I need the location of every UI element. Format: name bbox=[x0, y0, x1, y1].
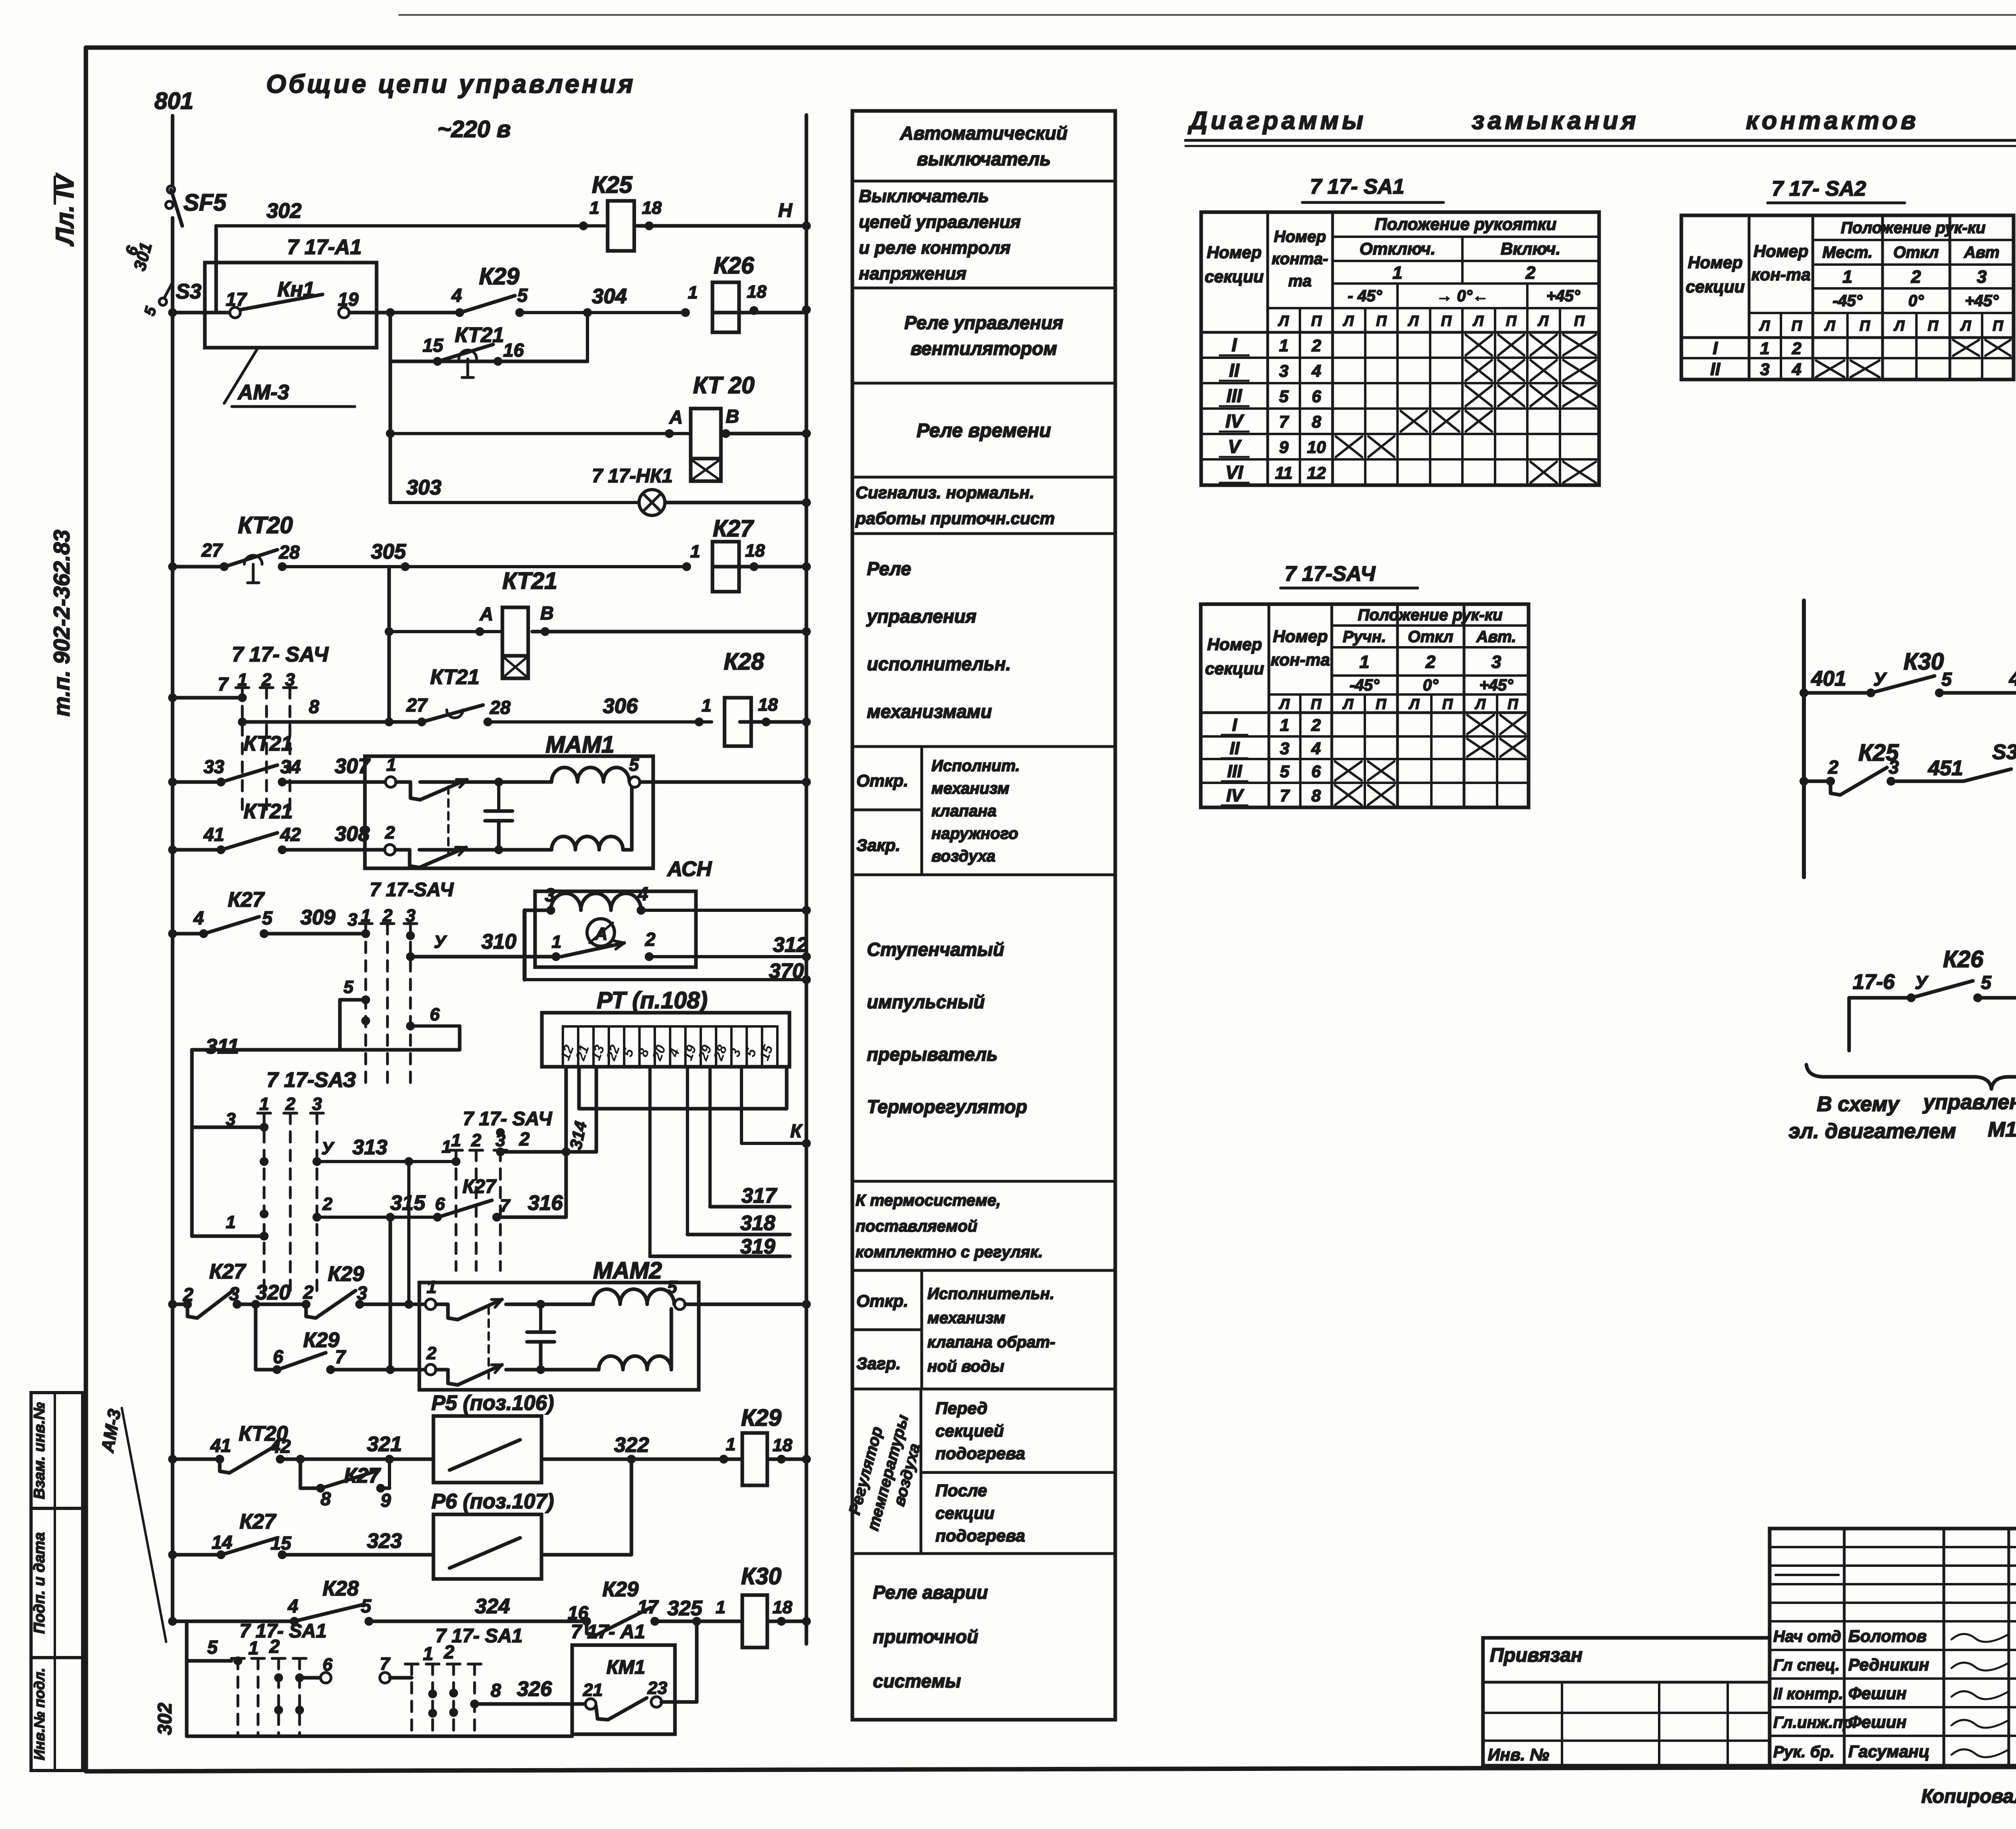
svg-text:4: 4 bbox=[451, 285, 462, 306]
svg-text:К28: К28 bbox=[724, 649, 764, 675]
svg-text:Л: Л bbox=[1824, 317, 1836, 334]
svg-text:3: 3 bbox=[226, 1109, 235, 1129]
svg-text:5: 5 bbox=[262, 907, 273, 928]
svg-text:1: 1 bbox=[1360, 652, 1369, 672]
svg-text:2: 2 bbox=[471, 1130, 481, 1150]
svg-text:вентилятором: вентилятором bbox=[910, 338, 1057, 359]
wire 308 bbox=[282, 848, 385, 852]
svg-text:12: 12 bbox=[1307, 463, 1326, 482]
svg-text:1: 1 bbox=[1279, 336, 1288, 355]
svg-text:К26: К26 bbox=[714, 252, 754, 279]
svg-text:II: II bbox=[1230, 738, 1240, 758]
svg-text:326: 326 bbox=[517, 1677, 552, 1701]
svg-text:3: 3 bbox=[1977, 267, 1987, 287]
svg-text:та: та bbox=[1288, 272, 1312, 290]
top paper edge line bbox=[399, 14, 2016, 16]
svg-text:Реле аварии: Реле аварии bbox=[873, 1582, 988, 1603]
svg-text:321: 321 bbox=[367, 1433, 402, 1456]
svg-text:17: 17 bbox=[226, 289, 248, 310]
svg-text:2: 2 bbox=[1425, 652, 1436, 672]
svg-text:П: П bbox=[1442, 696, 1453, 712]
svg-text:1: 1 bbox=[702, 696, 711, 715]
svg-text:3: 3 bbox=[1279, 361, 1288, 380]
svg-text:клапана обрат-: клапана обрат- bbox=[927, 1333, 1055, 1351]
wire 325 bbox=[655, 1620, 742, 1623]
wire 17-6 K26 17-4 bbox=[1849, 996, 1911, 1000]
svg-text:К30: К30 bbox=[741, 1563, 781, 1589]
svg-text:В схему: В схему bbox=[1817, 1093, 1900, 1116]
svg-text:6: 6 bbox=[1311, 762, 1321, 781]
wire P6 riser bbox=[541, 1553, 631, 1557]
wire pin7 bbox=[168, 693, 177, 702]
time contact KT20 27-28 bbox=[168, 562, 177, 571]
svg-text:Л: Л bbox=[1893, 317, 1905, 334]
svg-text:Авт: Авт bbox=[1964, 244, 1999, 261]
relay coil K25 bbox=[608, 201, 634, 251]
svg-text:ной воды: ной воды bbox=[927, 1358, 1004, 1375]
wire KT21 bypass bbox=[389, 313, 392, 361]
svg-text:305: 305 bbox=[371, 540, 406, 563]
wire 322 bbox=[541, 1458, 742, 1461]
svg-text:I: I bbox=[1232, 715, 1237, 735]
svg-text:напряжения: напряжения bbox=[859, 264, 966, 284]
svg-text:КМ1: КМ1 bbox=[606, 1657, 645, 1678]
svg-text:Н: Н bbox=[778, 200, 793, 221]
svg-text:15: 15 bbox=[423, 335, 444, 356]
MAM1 internal switches bbox=[396, 782, 420, 800]
svg-text:801: 801 bbox=[154, 88, 194, 114]
svg-text:АСН: АСН bbox=[666, 857, 712, 881]
svg-text:механизм: механизм bbox=[927, 1309, 1005, 1327]
brace to M17 circuit bbox=[1806, 1065, 2016, 1089]
svg-text:41: 41 bbox=[210, 1435, 231, 1456]
svg-text:выключатель: выключатель bbox=[917, 148, 1051, 169]
svg-text:4: 4 bbox=[1311, 739, 1320, 758]
svg-text:+45°: +45° bbox=[1479, 676, 1514, 694]
svg-text:Привязан: Привязан bbox=[1490, 1645, 1583, 1666]
svg-text:I: I bbox=[1713, 338, 1718, 358]
svg-text:Положение рук-ки: Положение рук-ки bbox=[1841, 219, 1985, 237]
svg-text:Выключатель: Выключатель bbox=[859, 186, 989, 206]
svg-text:7: 7 bbox=[1279, 412, 1289, 431]
svg-text:15: 15 bbox=[271, 1533, 292, 1554]
relay coil K30 bbox=[742, 1595, 767, 1648]
contact K29 2-3 break bbox=[302, 1300, 310, 1309]
svg-text:322: 322 bbox=[614, 1433, 649, 1457]
side stamp box Взам.инв.№ bbox=[31, 1393, 83, 1508]
svg-text:1: 1 bbox=[361, 906, 371, 926]
svg-text:5: 5 bbox=[1279, 387, 1289, 406]
svg-text:3: 3 bbox=[229, 1283, 240, 1304]
actuator box MAM1 bbox=[365, 756, 653, 868]
svg-text:3: 3 bbox=[406, 906, 415, 926]
svg-text:41: 41 bbox=[203, 824, 224, 845]
relay coil K28 bbox=[725, 698, 751, 746]
svg-text:1: 1 bbox=[451, 1130, 461, 1150]
svg-text:302: 302 bbox=[154, 1703, 176, 1735]
svg-text:К27: К27 bbox=[713, 515, 754, 542]
svg-text:В: В bbox=[726, 406, 739, 427]
svg-text:II: II bbox=[1229, 360, 1240, 381]
svg-text:7: 7 bbox=[1280, 786, 1290, 805]
svg-text:3: 3 bbox=[312, 1094, 322, 1114]
svg-text:М17: М17 bbox=[1988, 1118, 2016, 1141]
svg-text:5: 5 bbox=[629, 755, 639, 775]
tap 6-7 connector bbox=[300, 1676, 321, 1680]
svg-text:наружного: наружного bbox=[931, 825, 1018, 843]
svg-text:Закр.: Закр. bbox=[856, 836, 900, 855]
svg-text:Отключ.: Отключ. bbox=[1360, 239, 1435, 258]
svg-text:Номер: Номер bbox=[1688, 253, 1743, 272]
svg-text:451: 451 bbox=[1928, 757, 1963, 780]
svg-text:К термосистеме,: К термосистеме, bbox=[856, 1192, 1001, 1210]
svg-text:I: I bbox=[1232, 334, 1237, 355]
svg-text:механизм: механизм bbox=[931, 780, 1009, 797]
svg-text:приточной: приточной bbox=[873, 1626, 978, 1647]
svg-text:1: 1 bbox=[589, 198, 599, 218]
svg-text:Фешин: Фешин bbox=[1848, 1712, 1907, 1731]
PT wire 319 bbox=[648, 1067, 652, 1256]
contact K27 14-15 bbox=[168, 1550, 177, 1559]
svg-text:комплектно с регуляк.: комплектно с регуляк. bbox=[856, 1243, 1043, 1261]
wire 323 bbox=[282, 1553, 433, 1557]
riser from 313 to MAM2 bbox=[407, 1162, 410, 1304]
svg-text:7 17-SАЧ: 7 17-SАЧ bbox=[1285, 562, 1376, 586]
right bus N bbox=[805, 115, 808, 1644]
svg-text:7 17- SА1: 7 17- SА1 bbox=[1310, 175, 1404, 198]
svg-text:Автоматический: Автоматический bbox=[900, 123, 1067, 144]
MAM1 capacitor bbox=[497, 782, 500, 811]
svg-text:секции: секции bbox=[1205, 659, 1264, 678]
MAM2 capacitor bbox=[539, 1304, 542, 1332]
svg-text:Ступенчатый: Ступенчатый bbox=[867, 939, 1004, 960]
svg-text:Номер: Номер bbox=[1207, 243, 1262, 262]
svg-text:Ручн.: Ручн. bbox=[1343, 628, 1386, 646]
svg-text:1: 1 bbox=[1760, 339, 1769, 358]
svg-text:14: 14 bbox=[212, 1532, 232, 1553]
svg-text:1: 1 bbox=[442, 1137, 451, 1157]
MAM1 windings bbox=[552, 767, 629, 782]
svg-text:Откр.: Откр. bbox=[856, 1291, 908, 1310]
title block approval table bbox=[1770, 1529, 2016, 1766]
wire 315 316 bbox=[317, 1216, 437, 1219]
svg-text:КТ21: КТ21 bbox=[455, 323, 504, 347]
svg-text:Сигнализ. нормальн.: Сигнализ. нормальн. bbox=[856, 483, 1034, 502]
svg-text:П: П bbox=[1311, 313, 1322, 329]
svg-text:5: 5 bbox=[1280, 762, 1289, 781]
MAM2 windings bbox=[593, 1289, 674, 1304]
svg-text:4: 4 bbox=[193, 907, 204, 928]
svg-text:К30: К30 bbox=[1904, 649, 1944, 675]
wire 303 bbox=[390, 501, 639, 504]
bound stamp Привязан bbox=[1483, 1638, 1770, 1766]
svg-text:3: 3 bbox=[496, 1130, 505, 1150]
svg-text:311: 311 bbox=[206, 1035, 239, 1058]
svg-text:23: 23 bbox=[647, 1678, 667, 1698]
svg-text:1: 1 bbox=[1280, 715, 1289, 734]
tap 3 bbox=[192, 1126, 264, 1129]
svg-text:1: 1 bbox=[226, 1212, 235, 1232]
svg-text:6: 6 bbox=[1312, 387, 1321, 406]
svg-text:секцией: секцией bbox=[935, 1421, 1004, 1440]
svg-text:Л: Л bbox=[1472, 313, 1484, 329]
svg-text:К26: К26 bbox=[1943, 946, 1984, 972]
svg-text:312: 312 bbox=[773, 933, 808, 957]
svg-text:4: 4 bbox=[1791, 360, 1801, 379]
ACH top winding 3-4 bbox=[525, 909, 551, 912]
svg-text:П: П bbox=[1376, 696, 1387, 712]
svg-text:28: 28 bbox=[489, 697, 511, 718]
svg-text:К27: К27 bbox=[228, 888, 265, 911]
wire 326 bbox=[475, 1702, 585, 1706]
svg-text:цепей управления: цепей управления bbox=[859, 212, 1021, 232]
side stamp box Инв.№ подл. bbox=[31, 1658, 83, 1771]
svg-text:6: 6 bbox=[435, 1194, 445, 1214]
svg-text:2: 2 bbox=[303, 1282, 314, 1303]
svg-text:работы приточн.сист: работы приточн.сист bbox=[855, 509, 1055, 528]
svg-text:~220 в: ~220 в bbox=[437, 116, 511, 142]
svg-text:42: 42 bbox=[280, 824, 301, 845]
svg-text:МАМ1: МАМ1 bbox=[546, 732, 614, 758]
svg-text:П: П bbox=[1791, 317, 1802, 334]
wire 311 bbox=[192, 1048, 460, 1052]
wire left feed 801 bbox=[171, 116, 175, 186]
svg-text:У: У bbox=[434, 932, 447, 952]
svg-text:320: 320 bbox=[256, 1281, 291, 1304]
MAM2 internal switches bbox=[436, 1304, 458, 1320]
svg-text:11: 11 bbox=[1275, 463, 1293, 482]
svg-text:7 17- SАЧ: 7 17- SАЧ bbox=[232, 643, 329, 666]
svg-text:П: П bbox=[1311, 696, 1322, 712]
svg-text:РТ (п.108): РТ (п.108) bbox=[597, 987, 708, 1014]
svg-text:2: 2 bbox=[1311, 715, 1320, 734]
svg-text:К29: К29 bbox=[303, 1328, 339, 1352]
svg-text:управления: управления bbox=[866, 606, 977, 627]
svg-text:Реле управления: Реле управления bbox=[904, 312, 1063, 333]
svg-text:17-6: 17-6 bbox=[1853, 970, 1895, 994]
svg-text:324: 324 bbox=[475, 1595, 510, 1618]
svg-text:1: 1 bbox=[690, 542, 700, 561]
svg-text:К29: К29 bbox=[479, 263, 519, 290]
svg-text:7 17-А1: 7 17-А1 bbox=[287, 236, 362, 259]
svg-text:-45°: -45° bbox=[1833, 292, 1863, 310]
callout АМ-3 bbox=[224, 348, 258, 403]
svg-text:Гасуманц: Гасуманц bbox=[1848, 1742, 1930, 1761]
svg-text:VI: VI bbox=[1225, 462, 1243, 483]
svg-text:кон-та: кон-та bbox=[1752, 265, 1811, 284]
svg-text:446: 446 bbox=[2009, 667, 2016, 690]
svg-text:9: 9 bbox=[1279, 438, 1289, 457]
svg-text:Л: Л bbox=[1279, 696, 1290, 712]
svg-text:К27: К27 bbox=[240, 1510, 277, 1533]
svg-text:2: 2 bbox=[385, 823, 395, 843]
svg-text:308: 308 bbox=[335, 822, 370, 846]
svg-text:17: 17 bbox=[637, 1596, 659, 1617]
svg-text:42: 42 bbox=[270, 1436, 291, 1457]
callout line АМ-3 bottom bbox=[122, 1408, 166, 1642]
wire 309 bbox=[264, 932, 366, 936]
wire 306 bbox=[488, 720, 712, 724]
svg-text:5: 5 bbox=[1941, 669, 1952, 690]
svg-text:клапана: клапана bbox=[931, 802, 996, 820]
svg-text:Л: Л bbox=[1759, 317, 1770, 334]
svg-text:П: П bbox=[1574, 313, 1585, 329]
svg-text:Инв.№ подл.: Инв.№ подл. bbox=[31, 1668, 48, 1760]
svg-text:1: 1 bbox=[688, 283, 698, 302]
svg-text:К29: К29 bbox=[741, 1405, 781, 1431]
svg-text:У: У bbox=[321, 1139, 335, 1158]
svg-text:317: 317 bbox=[741, 1184, 777, 1208]
svg-text:310: 310 bbox=[481, 930, 516, 953]
svg-text:т.п. 902-2-362.83: т.п. 902-2-362.83 bbox=[49, 530, 74, 716]
PT loop wire below bbox=[579, 1067, 787, 1109]
svg-text:18: 18 bbox=[773, 1435, 792, 1455]
svg-text:Номер: Номер bbox=[1754, 242, 1808, 261]
wire 2 K25 3 451 S3 452 bbox=[1799, 777, 1808, 786]
PT wire 317 bbox=[708, 1067, 712, 1207]
svg-text:Л: Л bbox=[1408, 313, 1419, 329]
svg-text:323: 323 bbox=[367, 1529, 402, 1553]
svg-text:9: 9 bbox=[381, 1490, 391, 1511]
svg-text:А: А bbox=[479, 603, 493, 624]
svg-text:19: 19 bbox=[338, 289, 359, 310]
contact KM1 21-23 bbox=[585, 1699, 596, 1709]
svg-text:16: 16 bbox=[568, 1602, 589, 1623]
svg-text:→ 0°←: → 0°← bbox=[1436, 287, 1488, 305]
svg-text:К: К bbox=[790, 1120, 803, 1141]
svg-text:прерыватель: прерыватель bbox=[867, 1044, 998, 1065]
svg-text:кон-та: кон-та bbox=[1271, 650, 1330, 669]
svg-text:27: 27 bbox=[201, 540, 223, 561]
svg-text:10: 10 bbox=[1307, 438, 1326, 457]
actuator box MAM2 bbox=[419, 1283, 699, 1390]
svg-text:Гл.инж.пр: Гл.инж.пр bbox=[1773, 1714, 1853, 1731]
svg-text:Л: Л bbox=[1342, 696, 1354, 712]
svg-text:Откл: Откл bbox=[1408, 628, 1454, 646]
svg-text:Откр.: Откр. bbox=[856, 771, 908, 790]
time relay coil KT21 bbox=[389, 630, 502, 633]
svg-text:1: 1 bbox=[1393, 263, 1402, 283]
svg-text:А: А bbox=[669, 407, 683, 428]
svg-text:5: 5 bbox=[1981, 972, 1992, 993]
pushbutton Кн1 bbox=[168, 308, 177, 317]
svg-text:27: 27 bbox=[406, 694, 428, 715]
svg-text:Реле времени: Реле времени bbox=[916, 420, 1051, 441]
svg-text:6: 6 bbox=[430, 1005, 440, 1024]
svg-text:КТ21: КТ21 bbox=[244, 732, 293, 755]
svg-text:Номер: Номер bbox=[1273, 627, 1328, 646]
svg-text:304: 304 bbox=[592, 285, 627, 308]
svg-text:8: 8 bbox=[1311, 786, 1321, 805]
svg-text:Загр.: Загр. bbox=[856, 1354, 901, 1373]
svg-text:2: 2 bbox=[444, 1641, 454, 1662]
svg-text:П: П bbox=[1860, 317, 1870, 334]
svg-text:Р6 (поз.107): Р6 (поз.107) bbox=[431, 1490, 554, 1513]
tap 1 bbox=[192, 1235, 264, 1238]
svg-text:АМ-3: АМ-3 bbox=[237, 381, 289, 404]
wire 320 bbox=[237, 1303, 306, 1306]
svg-text:7: 7 bbox=[335, 1346, 346, 1367]
svg-text:S3: S3 bbox=[176, 280, 202, 303]
svg-text:Редникин: Редникин bbox=[1848, 1655, 1929, 1674]
svg-text:КТ 20: КТ 20 bbox=[693, 372, 754, 398]
contact K29 4-5 bbox=[455, 308, 464, 317]
svg-text:1: 1 bbox=[259, 1094, 269, 1114]
svg-text:Л: Л bbox=[1343, 313, 1354, 329]
svg-text:318: 318 bbox=[740, 1212, 775, 1235]
riser from 315 to MAM2 lower bbox=[389, 1217, 392, 1370]
svg-text:К25: К25 bbox=[592, 172, 633, 198]
svg-text:и реле контроля: и реле контроля bbox=[859, 238, 1010, 258]
svg-text:7 17-НК1: 7 17-НК1 bbox=[592, 465, 673, 487]
svg-text:3: 3 bbox=[357, 1283, 367, 1303]
relay coil K27 bbox=[712, 542, 739, 592]
box 7 17-А1 bbox=[205, 263, 377, 348]
svg-text:5: 5 bbox=[517, 285, 528, 306]
signal bus vertical bbox=[1802, 601, 1806, 877]
tap 5 bbox=[340, 998, 366, 1002]
wire MAM2 to bus bbox=[685, 1303, 806, 1306]
riser to K30 rung bbox=[695, 1621, 699, 1702]
cell Регулятор температуры воздуха bbox=[920, 1389, 923, 1554]
svg-text:МАМ2: МАМ2 bbox=[593, 1258, 662, 1284]
svg-text:2: 2 bbox=[1911, 267, 1921, 287]
svg-text:2: 2 bbox=[322, 1194, 333, 1214]
svg-text:контактов: контактов bbox=[1746, 107, 1919, 135]
svg-text:21: 21 bbox=[583, 1680, 603, 1700]
svg-text:Болотов: Болотов bbox=[1848, 1627, 1926, 1645]
svg-text:Кн1: Кн1 bbox=[277, 278, 314, 301]
svg-text:Рук. бр.: Рук. бр. bbox=[1773, 1743, 1835, 1761]
PT wire to tap2 bbox=[595, 1067, 598, 1152]
svg-text:Откл: Откл bbox=[1893, 244, 1939, 261]
contact K27 8-9 bypass bbox=[299, 1459, 302, 1488]
svg-text:Фешин: Фешин bbox=[1848, 1684, 1907, 1703]
contact K27 4-5 bbox=[168, 929, 177, 938]
svg-text:5: 5 bbox=[344, 977, 354, 997]
legend column table bbox=[852, 111, 1115, 1720]
svg-text:2: 2 bbox=[1311, 336, 1321, 355]
svg-text:КТ21: КТ21 bbox=[502, 568, 557, 594]
svg-text:системы: системы bbox=[873, 1671, 961, 1691]
svg-text:секции: секции bbox=[1205, 267, 1264, 286]
wire 302 bbox=[216, 224, 605, 227]
wire MAM1 to bus bbox=[640, 780, 806, 784]
svg-text:V: V bbox=[1228, 436, 1242, 457]
svg-text:3: 3 bbox=[1491, 652, 1501, 672]
svg-text:2: 2 bbox=[261, 670, 272, 690]
svg-text:IV: IV bbox=[1226, 786, 1244, 805]
svg-text:1: 1 bbox=[423, 1643, 433, 1664]
svg-text:замыкания: замыкания bbox=[1472, 107, 1639, 135]
svg-text:2: 2 bbox=[269, 1636, 280, 1657]
svg-text:Включ.: Включ. bbox=[1501, 239, 1561, 258]
svg-text:1: 1 bbox=[726, 1435, 735, 1454]
svg-text:28: 28 bbox=[279, 542, 300, 563]
cell Откр Закр клапан наружного воздуха bbox=[921, 747, 923, 875]
vertical feeder wire 2 bbox=[387, 567, 391, 722]
svg-text:К27: К27 bbox=[344, 1464, 381, 1487]
time relay coil KT20 bbox=[390, 432, 690, 435]
wire 310 bbox=[410, 955, 556, 959]
left bus bbox=[171, 313, 175, 1621]
wire 307 bbox=[282, 780, 385, 784]
svg-text:- 45°: - 45° bbox=[1348, 287, 1383, 305]
time contact KT21 41-42 bbox=[168, 845, 177, 854]
svg-text:8: 8 bbox=[491, 1680, 501, 1701]
side stamp box Подп. и дата bbox=[31, 1508, 83, 1658]
svg-text:2: 2 bbox=[183, 1284, 194, 1305]
